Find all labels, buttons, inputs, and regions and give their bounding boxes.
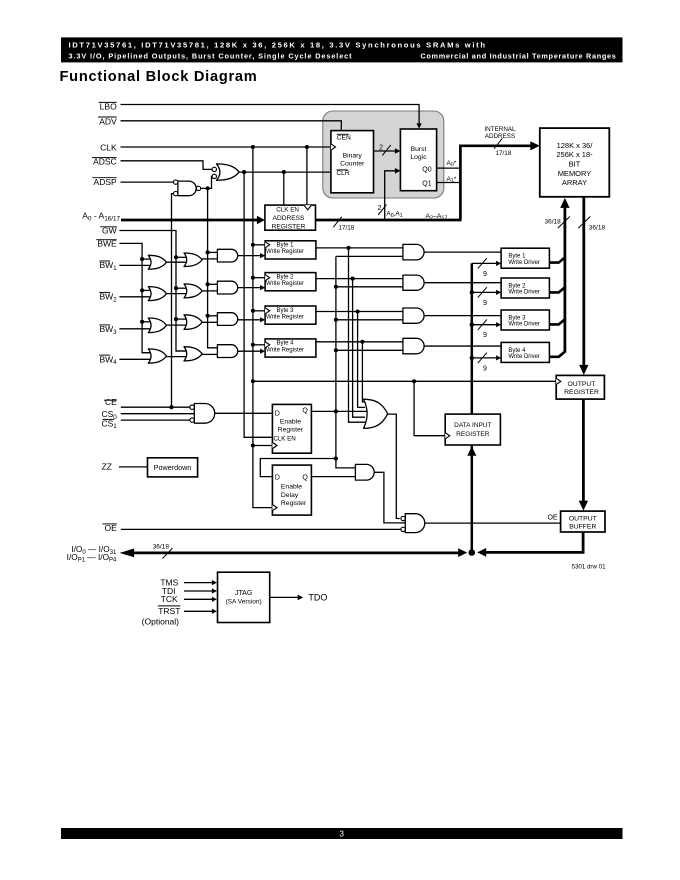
svg-text:CE: CE — [105, 397, 117, 407]
svg-text:36/18: 36/18 — [153, 543, 170, 550]
svg-text:Powerdown: Powerdown — [154, 463, 192, 472]
box Byte 1 Write Driver — [501, 248, 549, 268]
label ADSP — [92, 177, 116, 179]
gate OR2 row4 (GW+byte) — [184, 347, 202, 361]
svg-text:9: 9 — [483, 365, 487, 372]
label CS1 — [103, 418, 115, 420]
svg-text:IDT71V35761, IDT71V35781, 128K: IDT71V35761, IDT71V35781, 128K x 36, 256… — [69, 41, 487, 50]
svg-text:OE: OE — [105, 523, 118, 533]
wire AND to register D row3 — [238, 319, 261, 321]
junction CLK-addrclk — [305, 145, 309, 149]
gate AND2 row3 (drive enable) — [403, 308, 424, 323]
wire TDO — [270, 596, 299, 598]
label OE (signal) — [102, 523, 116, 525]
wire clk stub row1 — [253, 244, 265, 246]
svg-text:2: 2 — [378, 205, 382, 212]
gate OR1 row2 (BWE+BW2) — [148, 287, 166, 301]
box memory array — [540, 128, 610, 197]
clock triangle register 1 — [265, 242, 270, 248]
gate OR2 row1 (GW+byte) — [184, 253, 202, 267]
slash 36/18 write bus — [558, 217, 570, 229]
wire OR1-OR2 row2 — [166, 293, 188, 295]
wire CLK to binary counter — [121, 146, 331, 148]
box binary counter — [331, 131, 374, 193]
arrow write bus into memory — [560, 198, 569, 208]
wire enable to AND2 row4 — [336, 349, 403, 351]
arrow 9-bit into driver row4 — [496, 355, 501, 360]
gate AND row3 (write pulse) — [217, 313, 237, 326]
wire clock line to output register — [253, 380, 556, 382]
arrow D row2 — [260, 285, 265, 290]
svg-text:CLR: CLR — [336, 170, 349, 177]
wire enable-reg clock stub — [253, 445, 273, 447]
clock triangle delay register — [272, 505, 277, 511]
slash 9 row2 — [478, 287, 487, 297]
gate U1 OR (ADSC/ADSP) — [217, 164, 240, 180]
wire AND to register D row2 — [238, 287, 261, 289]
gate U4 AND (enable-delay) — [355, 464, 374, 480]
junction CLKEN branch — [282, 170, 286, 174]
arrow A0,A1 into burst logic — [395, 168, 401, 174]
svg-text:17/18: 17/18 — [339, 225, 355, 232]
wire NAND-out vertical — [208, 188, 218, 347]
label LBO — [99, 101, 117, 103]
wire ADSP — [121, 181, 174, 183]
bubble U2 input B — [174, 191, 178, 195]
svg-text:BW2: BW2 — [99, 292, 117, 304]
svg-text:D: D — [275, 475, 280, 482]
wire enable to AND2 row2 — [336, 286, 403, 288]
junction U2 output — [206, 186, 210, 190]
label BW2 — [99, 291, 110, 293]
wire data bus vertical — [471, 263, 474, 552]
wire TCK — [184, 598, 212, 600]
svg-text:CEN: CEN — [337, 135, 351, 142]
wire BW4 — [119, 358, 152, 360]
wire clk stub row4 — [253, 344, 265, 346]
svg-text:9: 9 — [483, 271, 487, 278]
wire OR1-OR2 row3 — [166, 324, 188, 326]
wire big OR output — [387, 414, 399, 518]
svg-text:BIT: BIT — [569, 160, 581, 169]
gate AND2 row2 (drive enable) — [403, 275, 424, 290]
svg-text:36/18: 36/18 — [545, 218, 562, 225]
junction clock line start — [251, 379, 255, 383]
bubble U5 input C — [401, 527, 405, 531]
slash 17/18 after address register — [333, 217, 341, 227]
wire output register to buffer — [582, 399, 585, 503]
svg-text:Write Driver: Write Driver — [508, 290, 540, 296]
svg-text:Q: Q — [302, 475, 308, 482]
gate AND2 row1 (drive enable) — [403, 244, 424, 260]
label CEN — [337, 133, 349, 135]
wire BW3 — [119, 328, 152, 330]
wire CS0 — [121, 413, 195, 415]
svg-text:36/18: 36/18 — [589, 225, 606, 232]
wire driver4 elbow — [549, 352, 565, 357]
wire counter to burst logic — [374, 150, 397, 152]
junction clk row3 — [251, 309, 255, 313]
box enable delay register — [272, 465, 311, 515]
bubble U2 input A — [174, 180, 178, 184]
junction write-pulse row3 — [206, 314, 210, 318]
wire clk stub row2 — [253, 277, 265, 279]
svg-text:Byte 2: Byte 2 — [276, 274, 294, 280]
box JTAG — [218, 572, 270, 622]
wire CS1 — [121, 419, 190, 421]
box output register — [556, 375, 604, 399]
junction clk row1 — [251, 243, 255, 247]
wire OR2-AND row2 — [202, 290, 217, 292]
footer black bar — [61, 828, 623, 839]
svg-text:Byte 3: Byte 3 — [508, 316, 526, 322]
wire CE — [121, 406, 190, 408]
wire enable to AND2 row1 — [336, 255, 403, 257]
svg-text:Enable: Enable — [280, 419, 301, 426]
clock triangle binary counter — [331, 144, 336, 150]
wire bundle reg4 to OR input1 — [362, 342, 366, 402]
arrow 9-bit into driver row3 — [496, 322, 501, 327]
svg-text:Binary: Binary — [343, 153, 363, 160]
svg-text:Byte 4: Byte 4 — [508, 348, 526, 354]
bubble U1 input A — [212, 167, 216, 171]
arrow 9-bit into driver row2 — [496, 290, 501, 295]
box Byte 3 Write Register — [265, 306, 316, 324]
svg-text:Write Driver: Write Driver — [508, 322, 540, 328]
box Byte 2 Write Register — [265, 273, 316, 291]
wire ADSC-OR vertical to enable register CLK EN — [244, 172, 272, 437]
clock triangle register 3 — [265, 308, 270, 314]
wire BW1 — [119, 264, 152, 266]
wire BWE to OR1 row3 — [142, 321, 152, 323]
slash 9 row3 — [478, 320, 487, 330]
burst logic grey region — [323, 111, 444, 198]
wire TRST — [184, 610, 212, 612]
wire AND2 out to driver row1 — [424, 251, 501, 253]
svg-text:BW1: BW1 — [99, 260, 117, 272]
wire BWE to OR1 row1 — [142, 258, 152, 260]
svg-text:(SA Version): (SA Version) — [226, 598, 262, 605]
junction CE-NAND link — [169, 405, 173, 409]
junction clock branch — [412, 379, 416, 383]
svg-text:(Optional): (Optional) — [142, 617, 179, 627]
box burst logic — [400, 129, 436, 191]
junction BWE row2 — [140, 288, 144, 292]
arrow TDO — [298, 595, 304, 601]
svg-text:128K x 36/: 128K x 36/ — [557, 141, 594, 150]
box Byte 4 Write Driver — [501, 342, 549, 362]
clock triangle data input register — [445, 433, 450, 439]
wire CLKEN vertical to address register — [283, 172, 285, 205]
junction bundle row1 — [346, 246, 350, 250]
svg-text:GW: GW — [102, 226, 117, 236]
box Byte 1 Write Register — [265, 241, 316, 259]
label CLR — [336, 169, 347, 171]
wire LBO to burst logic — [121, 105, 420, 126]
junction enable row2 — [334, 285, 338, 289]
wire AND2 out to driver row2 — [424, 282, 501, 284]
arrow LBO into Burst Logic — [416, 123, 421, 128]
wire NAND output to OR — [201, 176, 212, 188]
svg-text:Register: Register — [281, 500, 307, 507]
wire ADV to binary counter CEN — [121, 121, 342, 131]
wire CE-AND output to enable register D — [215, 412, 273, 414]
svg-text:Write Register: Write Register — [266, 249, 304, 255]
wire CLK vertical — [253, 147, 273, 508]
svg-text:256K x 18-: 256K x 18- — [556, 150, 593, 159]
wire TDI — [184, 590, 212, 592]
wire enable register Q — [311, 410, 336, 412]
arrow counter to burst logic — [395, 148, 401, 154]
svg-text:A0,A1: A0,A1 — [386, 210, 402, 218]
bubble U3 input CE — [190, 405, 194, 409]
arrow D row3 — [260, 317, 265, 322]
svg-text:5301 drw 01: 5301 drw 01 — [572, 564, 607, 571]
junction enable-reg clock — [251, 443, 255, 447]
box output buffer — [561, 511, 605, 532]
gate AND row1 (write pulse) — [217, 249, 237, 262]
slash 9 row4 — [478, 353, 487, 363]
junction data branch row3 — [470, 323, 474, 327]
svg-text:3: 3 — [339, 830, 344, 839]
svg-text:A0*: A0* — [447, 160, 457, 168]
junction write-pulse row2 — [206, 282, 210, 286]
wire BW2 — [119, 296, 152, 298]
wire CE-link vertical (NAND input to CE line) — [172, 194, 174, 408]
svg-text:BUFFER: BUFFER — [569, 523, 596, 530]
wire read data bus vertical — [582, 197, 585, 367]
svg-text:BW3: BW3 — [99, 324, 117, 336]
svg-text:ARRAY: ARRAY — [562, 178, 587, 187]
svg-text:Q0: Q0 — [422, 166, 431, 173]
label GW — [100, 226, 117, 228]
wire bundle reg3 to OR input2 — [358, 312, 365, 408]
svg-text:Write Register: Write Register — [266, 314, 304, 320]
junction GW row2 — [174, 286, 178, 290]
junction IO node — [469, 549, 476, 556]
svg-text:Burst: Burst — [411, 146, 427, 153]
arrow TRST — [212, 609, 217, 614]
svg-text:Write Driver: Write Driver — [508, 260, 540, 266]
svg-text:REGISTER: REGISTER — [272, 223, 306, 230]
bubble U2 output — [196, 186, 200, 190]
svg-text:OUTPUT: OUTPUT — [568, 381, 596, 388]
wire OR2-AND row1 — [202, 258, 217, 260]
junction BWE row1 — [140, 257, 144, 261]
wire U4 output — [374, 472, 405, 523]
label BW1 — [99, 260, 110, 262]
wire buffer to IO bus — [482, 532, 583, 552]
gate OR1 row3 (BWE+BW3) — [148, 318, 166, 333]
svg-text:ADDRESS: ADDRESS — [485, 133, 515, 140]
svg-text:MEMORY: MEMORY — [558, 169, 592, 178]
svg-text:OE: OE — [547, 515, 557, 522]
wire GW to OR2 row1 — [176, 256, 188, 258]
header black bar — [61, 37, 623, 62]
wire driver2 elbow — [549, 287, 565, 292]
svg-text:Counter: Counter — [340, 161, 365, 168]
slash 36/18 read bus — [578, 217, 590, 229]
arrow 9-bit into driver row1 — [496, 261, 501, 266]
svg-text:Byte 1: Byte 1 — [276, 243, 294, 249]
junction enable row4 — [334, 348, 338, 352]
svg-text:CLK: CLK — [100, 142, 117, 152]
svg-text:ADSC: ADSC — [93, 156, 117, 166]
slash 2 (counter out) — [382, 145, 390, 155]
arrow internal address into memory — [530, 141, 540, 150]
wire delay D link — [260, 459, 336, 477]
junction GW row3 — [174, 317, 178, 321]
wire GW to OR2 row3 — [176, 318, 188, 320]
wire 9-bit branch row1 — [472, 262, 497, 264]
clock triangle output register — [556, 378, 561, 384]
wire write-pulse to AND row2 — [208, 283, 218, 285]
wire 9-bit branch row4 — [472, 357, 497, 359]
slash A0,A1 — [378, 205, 386, 215]
wire delay register Q — [311, 476, 355, 478]
box Byte 3 Write Driver — [501, 310, 549, 330]
svg-text:BW4: BW4 — [99, 354, 117, 366]
box Byte 4 Write Register — [265, 339, 316, 357]
junction bundle row2 — [351, 277, 355, 281]
svg-text:D: D — [275, 411, 280, 418]
gate U3 AND (CE/CS0/CS1) — [194, 404, 214, 424]
svg-text:Write Driver: Write Driver — [508, 354, 540, 360]
wire OR2-AND row4 — [202, 353, 217, 355]
wire OE — [121, 528, 401, 530]
junction enable-OR — [334, 409, 338, 413]
wire OR1-OR2 row4 — [166, 356, 188, 358]
gate U2 AND (ADSP/CE) — [178, 181, 196, 196]
arrow into output buffer — [579, 501, 588, 511]
wire U1 output to CLR — [239, 171, 331, 173]
svg-text:17/18: 17/18 — [496, 150, 512, 157]
junction enable row3 — [334, 318, 338, 322]
wire BWE to OR1 row4 — [142, 352, 152, 354]
wire addr-clk vertical — [306, 147, 308, 205]
svg-text:Q1: Q1 — [422, 181, 431, 188]
box address register — [265, 205, 316, 230]
junction U1 out branch — [242, 170, 246, 174]
arrow TCK — [212, 597, 217, 602]
junction bundle row4 — [360, 340, 364, 344]
wire driver1 elbow — [549, 257, 565, 262]
wire clk stub row3 — [253, 310, 265, 312]
wire register2 output — [316, 278, 403, 280]
junction write-pulse row1 — [206, 250, 210, 254]
wire enable vertical — [336, 256, 356, 468]
label ADSC — [92, 157, 117, 159]
svg-text:ADSP: ADSP — [94, 177, 117, 187]
svg-text:Register: Register — [278, 427, 304, 434]
svg-text:CLK EN: CLK EN — [276, 206, 299, 213]
wire AND2 out to driver row3 — [424, 315, 501, 317]
arrow data into register — [467, 446, 476, 456]
svg-text:CLK EN: CLK EN — [273, 435, 295, 442]
label CE — [104, 399, 117, 401]
arrow D row4 — [260, 349, 265, 354]
clock triangle address register — [304, 205, 312, 210]
wire register1 output — [316, 247, 403, 249]
wire A-bus input — [121, 219, 258, 222]
svg-text:OUTPUT: OUTPUT — [569, 516, 597, 523]
wire bundle reg2 to OR input4 — [353, 279, 365, 418]
gate U5 AND (output enable) — [405, 514, 424, 533]
svg-text:9: 9 — [483, 332, 487, 339]
slash internal address — [494, 138, 502, 148]
wire write-pulse to AND row3 — [208, 315, 218, 317]
gate OR2 row3 (GW+byte) — [184, 315, 202, 330]
svg-text:JTAG: JTAG — [235, 590, 252, 597]
box enable register — [272, 404, 311, 453]
wire 9-bit branch row3 — [472, 324, 497, 326]
junction CLK-vertical — [251, 145, 255, 149]
arrow TMS — [212, 580, 217, 585]
svg-text:Byte 3: Byte 3 — [276, 308, 294, 314]
svg-text:A0 - A16/17: A0 - A16/17 — [82, 211, 120, 223]
wire bundle reg1 to OR input5 — [349, 248, 367, 422]
gate AND row2 (write pulse) — [217, 281, 237, 294]
box data input register — [445, 414, 500, 445]
wire BWE vertical — [119, 243, 150, 352]
wire GW to OR2 row2 — [176, 287, 188, 289]
arrow TDI — [212, 588, 217, 593]
junction BWE row3 — [140, 320, 144, 324]
junction clk row2 — [251, 276, 255, 280]
svg-text:REGISTER: REGISTER — [564, 389, 599, 396]
svg-text:Commercial and Industrial Temp: Commercial and Industrial Temperature Ra… — [420, 52, 616, 61]
slash 36/18 IO — [163, 548, 173, 558]
svg-text:DATA INPUT: DATA INPUT — [454, 422, 491, 429]
arrow read bus into output register — [579, 365, 588, 375]
wire AND to register D row1 — [238, 255, 261, 257]
wire AND to register D row4 — [238, 350, 261, 352]
wire TMS — [184, 582, 212, 584]
label BWE — [96, 239, 117, 241]
svg-text:TCK: TCK — [161, 594, 178, 604]
clock triangle enable register — [272, 442, 277, 448]
svg-text:Byte 4: Byte 4 — [276, 341, 294, 347]
junction data branch row4 — [470, 356, 474, 360]
box powerdown — [148, 458, 198, 477]
gate OR1 row1 (BWE+BW1) — [148, 255, 166, 269]
svg-text:TDO: TDO — [308, 592, 327, 602]
svg-text:Q: Q — [302, 408, 308, 415]
svg-text:Byte 2: Byte 2 — [508, 284, 526, 290]
svg-text:2: 2 — [379, 144, 383, 151]
wire BWE to OR1 row2 — [142, 289, 152, 291]
gate OR2 row2 (GW+byte) — [184, 284, 202, 298]
junction data branch row2 — [470, 290, 474, 294]
wire GW vertical — [119, 231, 186, 352]
svg-text:LBO: LBO — [100, 102, 117, 112]
wire U5 output to output buffer — [425, 522, 561, 524]
gate OR1 row4 (BWE+BW4) — [148, 349, 166, 363]
wire internal address — [460, 146, 532, 220]
svg-text:Write Register: Write Register — [266, 347, 304, 353]
wire GW to OR2 row4 — [176, 350, 188, 352]
clock triangle register 4 — [265, 342, 270, 348]
gate big OR (write detect) — [364, 399, 388, 428]
label BW4 — [99, 354, 110, 356]
svg-text:ADV: ADV — [99, 116, 117, 126]
wire IO bus — [133, 552, 462, 555]
svg-text:Delay: Delay — [281, 492, 299, 499]
wire OR1-OR2 row1 — [166, 261, 188, 263]
junction clk row4 — [251, 343, 255, 347]
bubble U3 input CS1 — [190, 418, 194, 422]
arrow D row1 — [260, 253, 265, 258]
